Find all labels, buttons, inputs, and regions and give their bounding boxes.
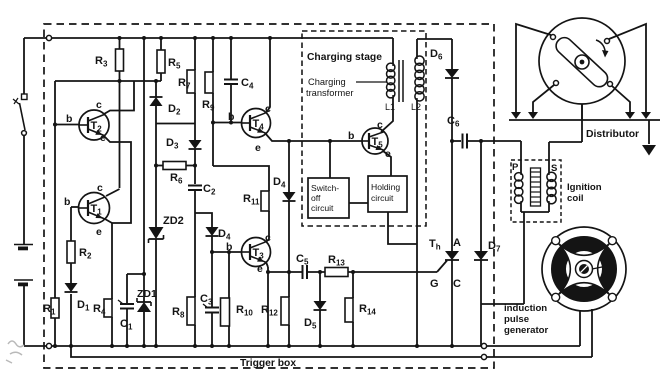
svg-text:G: G [430, 278, 439, 290]
svg-text:C: C [453, 278, 461, 290]
svg-text:L1: L1 [385, 102, 395, 112]
svg-text:A: A [453, 237, 461, 249]
svg-text:c: c [265, 103, 271, 115]
svg-text:Trigger box: Trigger box [240, 358, 296, 369]
svg-text:coil: coil [567, 193, 584, 204]
svg-text:c: c [265, 232, 271, 244]
svg-text:circuit: circuit [311, 203, 334, 213]
svg-text:Charging: Charging [308, 77, 346, 87]
svg-text:circuit: circuit [371, 193, 394, 203]
svg-text:b: b [348, 130, 354, 142]
svg-text:e: e [257, 263, 263, 275]
svg-text:c: c [96, 99, 102, 111]
svg-text:c: c [97, 182, 103, 194]
svg-text:P: P [512, 162, 519, 173]
svg-text:Charging stage: Charging stage [307, 52, 382, 63]
svg-text:S: S [551, 163, 557, 174]
svg-text:ZD1: ZD1 [137, 288, 157, 300]
svg-text:e: e [385, 148, 391, 160]
svg-text:transformer: transformer [306, 88, 354, 98]
svg-text:off: off [311, 193, 321, 203]
svg-text:b: b [64, 196, 70, 208]
svg-text:Holding: Holding [371, 182, 400, 192]
svg-text:ZD2: ZD2 [163, 215, 184, 227]
svg-text:e: e [100, 132, 106, 144]
svg-text:e: e [255, 142, 261, 154]
svg-text:pulse: pulse [504, 314, 529, 325]
svg-text:b: b [66, 113, 72, 125]
svg-text:Switch-: Switch- [311, 183, 339, 193]
svg-text:e: e [96, 226, 102, 238]
svg-text:generator: generator [504, 325, 549, 336]
svg-text:induction: induction [504, 303, 547, 314]
svg-text:b: b [226, 241, 232, 253]
svg-text:c: c [377, 119, 383, 131]
svg-text:Distributor: Distributor [586, 129, 639, 140]
svg-text:L2: L2 [411, 102, 421, 112]
svg-text:b: b [228, 111, 234, 123]
svg-text:Ignition: Ignition [567, 182, 602, 193]
